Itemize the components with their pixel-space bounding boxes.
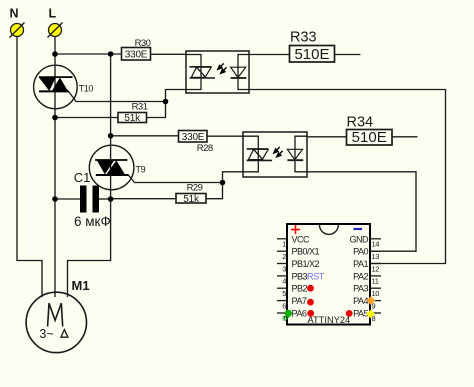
svg-text:PB1/X2: PB1/X2 [292, 259, 320, 269]
junction R31 left [52, 115, 58, 121]
wire R34 left [307, 136, 347, 138]
wire C1 right [99, 198, 111, 200]
wire rail y54 to R30 [55, 53, 122, 55]
svg-text:13: 13 [372, 252, 380, 261]
svg-text:T10: T10 [79, 83, 94, 93]
motor M1 [26, 278, 89, 353]
resistor R31 [118, 102, 148, 124]
pin stubs right [370, 239, 381, 313]
resistor R29 [176, 183, 206, 205]
svg-text:330E: 330E [125, 49, 148, 60]
svg-text:6: 6 [282, 301, 286, 310]
junction rail-T9 branch [108, 51, 114, 57]
terminal L [48, 7, 63, 38]
svg-text:T9: T9 [136, 164, 146, 174]
junction L rail [52, 51, 58, 57]
svg-text:51k: 51k [124, 113, 141, 124]
wire N vertical [17, 37, 42, 298]
svg-text:10: 10 [372, 289, 380, 298]
svg-text:PA5: PA5 [353, 309, 368, 319]
wire R31 right [147, 102, 166, 118]
wire R30 to opto1 [151, 53, 187, 55]
svg-text:L: L [49, 7, 57, 21]
light arrows OK2 [274, 147, 283, 157]
wire T9 gate [128, 175, 222, 183]
svg-text:12: 12 [372, 264, 380, 273]
svg-text:PA0: PA0 [353, 247, 368, 257]
svg-text:330E: 330E [182, 132, 205, 143]
svg-text:PA7: PA7 [292, 296, 307, 306]
wire T10 gate [69, 91, 166, 101]
junction T9 gate node [220, 180, 226, 186]
resistor R30 [122, 38, 151, 60]
svg-text:R29: R29 [187, 183, 203, 194]
wire C1 left [55, 198, 80, 200]
optocoupler OK2 [243, 132, 307, 177]
svg-text:6 мкФ: 6 мкФ [74, 214, 111, 229]
svg-text:14: 14 [372, 240, 380, 249]
marker red dot PA7 [307, 299, 314, 306]
wire R29 left [111, 198, 176, 200]
svg-text:PA2: PA2 [353, 271, 368, 281]
svg-text:N: N [10, 7, 19, 21]
resistor R34 [347, 114, 393, 146]
wire L vertical [54, 37, 56, 298]
svg-text:PA6: PA6 [292, 309, 307, 319]
optocoupler OK1 [186, 51, 249, 93]
svg-text:PA1: PA1 [353, 259, 368, 269]
svg-text:4: 4 [282, 277, 286, 286]
pin numbers left [282, 240, 286, 323]
wire R31 left [55, 117, 118, 119]
pin labels left [292, 234, 325, 318]
svg-text:PB3RST: PB3RST [292, 271, 325, 281]
wire opto1 to PA1 [249, 90, 446, 264]
light arrows OK1 [218, 63, 227, 73]
svg-text:11: 11 [372, 277, 379, 286]
junction T10 gate node [163, 99, 169, 105]
junction C1 right [108, 196, 114, 202]
triac T9 [89, 145, 145, 190]
svg-text:510E: 510E [294, 46, 329, 63]
svg-text:3~: 3~ [39, 327, 53, 341]
VCC plus symbol [291, 225, 300, 234]
resistor R28 [179, 131, 213, 154]
marker red dot PB2 [307, 285, 314, 292]
marker green PA6 [283, 310, 292, 321]
terminal N [10, 7, 25, 38]
wire gate node up to opto1 [166, 90, 187, 102]
wire gate node up to opto2 [223, 172, 244, 183]
junction R28 rail [108, 133, 114, 139]
capacitor C1 [74, 170, 111, 229]
wire R33 right stub [335, 54, 361, 56]
svg-text:C1: C1 [74, 170, 91, 185]
marker red dot PA5 [346, 310, 353, 317]
GND minus symbol [354, 228, 363, 230]
svg-text:M1: M1 [72, 278, 90, 293]
svg-text:PA3: PA3 [353, 284, 368, 294]
pin stubs left [277, 239, 287, 313]
pin numbers right [372, 240, 380, 323]
svg-text:PB0/X1: PB0/X1 [292, 247, 320, 257]
wire mid vertical x111 [68, 54, 111, 297]
svg-text:R31: R31 [132, 102, 148, 113]
marker orange PA4 [367, 296, 376, 305]
svg-text:5: 5 [282, 289, 286, 298]
wire rail y135.8 to R28 [111, 135, 179, 137]
wire opto2 to PA0 [307, 172, 416, 251]
marker red dot PA6 [307, 310, 314, 317]
IC U1 ATTINY24 [287, 224, 370, 325]
svg-text:2: 2 [282, 252, 286, 261]
svg-text:R30: R30 [135, 38, 151, 49]
svg-text:51k: 51k [183, 194, 200, 205]
svg-text:VCC: VCC [292, 234, 311, 244]
resistor R33 [290, 30, 335, 63]
pin labels right [349, 234, 369, 318]
svg-text:510E: 510E [352, 129, 387, 146]
svg-text:PB2: PB2 [292, 284, 308, 294]
svg-text:R28: R28 [197, 143, 213, 154]
svg-text:R33: R33 [290, 30, 317, 46]
svg-text:3: 3 [282, 264, 286, 273]
wire R33 left [249, 54, 290, 56]
marker yellow PA5 [366, 310, 375, 319]
svg-text:R34: R34 [347, 114, 374, 130]
wire R29 right [206, 183, 223, 199]
triac T10 [34, 65, 94, 109]
svg-text:1: 1 [282, 240, 286, 249]
svg-text:ATTINY24: ATTINY24 [308, 315, 351, 325]
svg-text:PA4: PA4 [353, 296, 368, 306]
wire R34 right stub [392, 136, 418, 138]
wire R28 to opto2 [207, 135, 243, 137]
svg-text:GND: GND [349, 234, 369, 244]
junction C1 left [52, 196, 58, 202]
